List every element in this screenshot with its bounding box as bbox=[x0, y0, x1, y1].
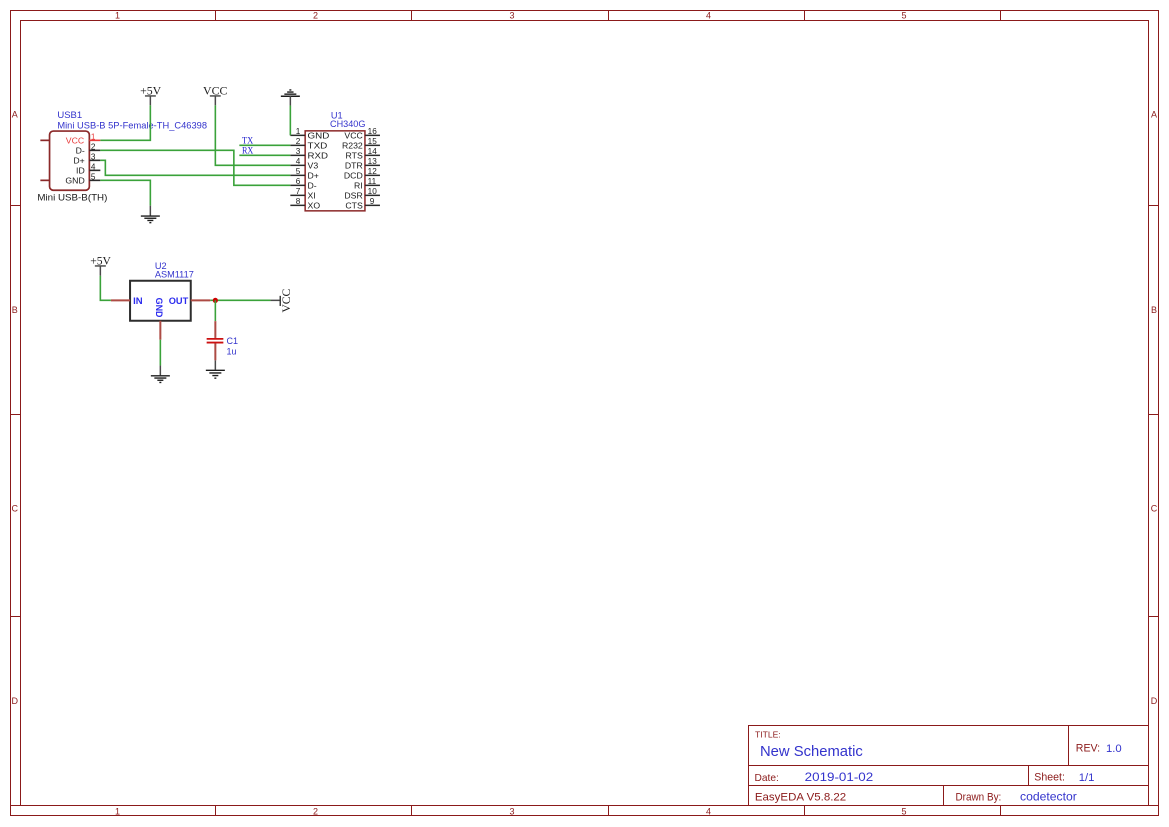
svg-text:DSR: DSR bbox=[344, 191, 362, 201]
svg-text:B: B bbox=[1151, 305, 1157, 315]
svg-text:15: 15 bbox=[368, 137, 378, 146]
USB1 pin 2 D- bbox=[76, 142, 101, 155]
U1 right pin names bbox=[342, 131, 363, 211]
svg-text:3: 3 bbox=[91, 152, 96, 161]
svg-text:C1: C1 bbox=[227, 336, 239, 346]
wire ground to U1 pin1 bbox=[289, 106, 291, 136]
USB1 pin 1 VCC bbox=[66, 132, 101, 145]
capacitor C1 bbox=[207, 321, 224, 360]
svg-text:CH340G: CH340G bbox=[330, 119, 365, 129]
svg-text:4: 4 bbox=[91, 162, 96, 171]
svg-text:5: 5 bbox=[296, 167, 301, 176]
svg-text:XO: XO bbox=[308, 201, 321, 211]
ground symbol above U1 pin1 (inverted) bbox=[281, 90, 300, 106]
svg-text:R232: R232 bbox=[342, 141, 363, 151]
svg-text:GND: GND bbox=[308, 131, 330, 141]
svg-text:VCC: VCC bbox=[279, 289, 293, 313]
svg-text:2: 2 bbox=[313, 806, 318, 816]
svg-text:1: 1 bbox=[91, 132, 96, 141]
svg-text:DCD: DCD bbox=[344, 171, 363, 181]
svg-text:Drawn By:: Drawn By: bbox=[956, 791, 1002, 803]
svg-text:1u: 1u bbox=[227, 347, 237, 357]
svg-text:5: 5 bbox=[91, 172, 96, 181]
USB1 pin 4 ID bbox=[76, 162, 100, 175]
svg-text:TXD: TXD bbox=[308, 141, 328, 151]
IC U1 CH340G body bbox=[305, 131, 365, 211]
U1 right pins group bbox=[365, 135, 380, 205]
svg-text:C: C bbox=[12, 504, 19, 514]
svg-text:RI: RI bbox=[354, 181, 363, 191]
svg-text:B: B bbox=[12, 305, 18, 315]
wire U2 GND to ground bbox=[159, 340, 161, 366]
connector USB1 Mini USB-B bbox=[50, 131, 90, 190]
svg-text:XI: XI bbox=[308, 191, 316, 201]
wire RX stub to U1 pin3 bbox=[239, 154, 290, 156]
svg-text:D+: D+ bbox=[73, 155, 84, 165]
U1 left pin names bbox=[308, 131, 330, 211]
TITLE BLOCK bbox=[749, 726, 1149, 806]
svg-text:VCC: VCC bbox=[344, 131, 362, 141]
svg-text:3: 3 bbox=[296, 147, 301, 156]
ground symbol below USB1 wire bbox=[141, 206, 160, 223]
svg-text:RTS: RTS bbox=[346, 151, 363, 161]
power +5V symbol top bbox=[140, 84, 161, 106]
wire USB1 pin3 to U1 pin5 (D+) bbox=[100, 160, 290, 175]
svg-text:D-: D- bbox=[308, 181, 317, 191]
svg-text:TX: TX bbox=[242, 137, 253, 147]
USB1 shell pin left top bbox=[40, 139, 49, 141]
svg-text:USB1: USB1 bbox=[57, 110, 82, 120]
svg-text:Mini USB-B(TH): Mini USB-B(TH) bbox=[37, 193, 107, 204]
svg-text:CTS: CTS bbox=[345, 201, 363, 211]
svg-text:5: 5 bbox=[901, 806, 906, 816]
svg-text:3: 3 bbox=[509, 11, 514, 21]
svg-text:OUT: OUT bbox=[169, 296, 189, 307]
svg-text:1: 1 bbox=[115, 806, 120, 816]
svg-text:IN: IN bbox=[133, 296, 143, 307]
svg-text:4: 4 bbox=[296, 157, 301, 166]
svg-text:1.0: 1.0 bbox=[1106, 743, 1122, 755]
power VCC symbol top bbox=[203, 84, 227, 106]
svg-text:10: 10 bbox=[368, 187, 378, 196]
svg-text:1/1: 1/1 bbox=[1079, 772, 1095, 784]
ground symbol below C1 bbox=[206, 360, 225, 378]
svg-text:11: 11 bbox=[368, 177, 377, 186]
svg-text:13: 13 bbox=[368, 157, 378, 166]
wire TX stub to U1 pin2 bbox=[239, 144, 290, 146]
svg-text:2: 2 bbox=[313, 11, 318, 21]
svg-text:V3: V3 bbox=[308, 161, 319, 171]
regulator U2 ASM1117 body bbox=[130, 281, 191, 321]
svg-text:2: 2 bbox=[91, 142, 96, 151]
junction dot at OUT node bbox=[213, 298, 218, 303]
svg-text:6: 6 bbox=[296, 177, 301, 186]
svg-text:Date:: Date: bbox=[755, 773, 779, 784]
USB1 pin 5 GND bbox=[65, 172, 100, 185]
wire USB1 pin5 to ground bbox=[100, 180, 150, 205]
svg-text:TITLE:: TITLE: bbox=[755, 730, 781, 740]
svg-text:RX: RX bbox=[242, 147, 254, 157]
wire U2 OUT to VCC bbox=[210, 299, 270, 301]
wire junction down to C1 bbox=[214, 300, 216, 321]
USB1 shell pin left bottom bbox=[40, 179, 49, 181]
svg-text:1: 1 bbox=[296, 127, 301, 136]
wire USB1 pin2 to U1 pin6 (D-) bbox=[100, 150, 290, 185]
svg-text:D-: D- bbox=[76, 145, 85, 155]
svg-text:4: 4 bbox=[706, 11, 711, 21]
svg-text:D+: D+ bbox=[308, 171, 319, 181]
ground symbol below U2 bbox=[151, 366, 170, 383]
svg-text:New Schematic: New Schematic bbox=[760, 744, 863, 760]
U1 right pin numbers 16-9 bbox=[368, 127, 378, 206]
svg-text:1: 1 bbox=[115, 11, 120, 21]
svg-text:ASM1117: ASM1117 bbox=[155, 270, 194, 280]
svg-text:14: 14 bbox=[368, 147, 378, 156]
svg-text:GND: GND bbox=[153, 298, 164, 318]
svg-text:A: A bbox=[12, 110, 18, 120]
power VCC symbol right (rotated) bbox=[271, 289, 293, 313]
svg-text:GND: GND bbox=[65, 175, 84, 185]
svg-text:16: 16 bbox=[368, 127, 378, 136]
svg-text:D: D bbox=[1151, 696, 1158, 706]
svg-text:8: 8 bbox=[296, 197, 301, 206]
svg-text:C: C bbox=[1151, 504, 1158, 514]
U1 left pin numbers 1-8 bbox=[296, 127, 301, 206]
USB1 pin 3 D+ bbox=[73, 152, 100, 165]
svg-text:12: 12 bbox=[368, 167, 378, 176]
wire +5V to U2 IN bbox=[100, 276, 111, 301]
svg-text:codetector: codetector bbox=[1020, 790, 1077, 804]
svg-text:4: 4 bbox=[706, 806, 711, 816]
svg-text:DTR: DTR bbox=[345, 161, 363, 171]
svg-text:RXD: RXD bbox=[308, 151, 328, 161]
wire +5V to USB1 pin1 bbox=[100, 105, 150, 140]
svg-text:Sheet:: Sheet: bbox=[1034, 771, 1065, 783]
svg-text:7: 7 bbox=[296, 187, 301, 196]
U2 pin GND stub bbox=[159, 321, 161, 340]
svg-text:2019-01-02: 2019-01-02 bbox=[805, 772, 874, 784]
U2 pin IN stub bbox=[111, 299, 130, 301]
U1 left pins group bbox=[290, 135, 305, 205]
svg-text:3: 3 bbox=[509, 806, 514, 816]
svg-text:EasyEDA V5.8.22: EasyEDA V5.8.22 bbox=[755, 791, 846, 803]
svg-text:REV:: REV: bbox=[1076, 743, 1100, 755]
svg-text:A: A bbox=[1151, 110, 1157, 120]
svg-text:D: D bbox=[12, 696, 19, 706]
power +5V symbol at U2 bbox=[90, 254, 111, 276]
wire VCC to U1 pin4 (V3) bbox=[215, 105, 290, 165]
svg-text:ID: ID bbox=[76, 165, 85, 175]
svg-text:5: 5 bbox=[901, 11, 906, 21]
svg-text:VCC: VCC bbox=[66, 135, 84, 145]
svg-text:9: 9 bbox=[370, 197, 375, 206]
svg-text:2: 2 bbox=[296, 137, 301, 146]
U2 pin OUT stub bbox=[191, 299, 211, 301]
svg-text:Mini USB-B 5P-Female-TH_C46398: Mini USB-B 5P-Female-TH_C46398 bbox=[57, 121, 207, 131]
